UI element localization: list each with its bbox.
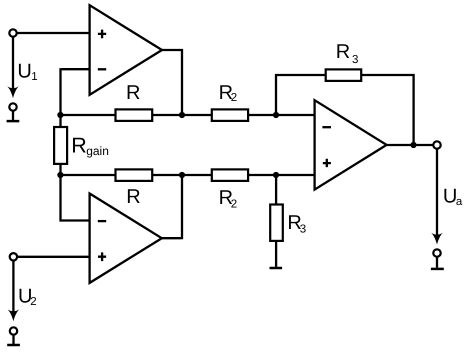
wire row1 right [248,114,315,116]
resistor R2 (top) [212,109,248,121]
svg-text:U: U [17,60,31,82]
op-amp A3 (right) [315,100,387,189]
node G (output junction) [410,142,416,148]
svg-text:3: 3 [352,54,358,66]
label R3 (top) [336,41,359,66]
svg-text:gain: gain [86,144,109,158]
wire Rgain to row2 [59,164,61,175]
terminal U2 input [10,253,17,260]
U2 source arrow [8,261,20,322]
svg-text:R: R [126,82,140,104]
terminal U2 reference [7,327,20,345]
wire op-amp1 inverting input [61,68,90,127]
op-amp A2 (bottom) [90,194,162,283]
label R2 (bottom) [219,187,238,211]
label R2 (top) [219,82,238,104]
node C (row1 feedback junction) [273,112,279,118]
wire row2 right [248,174,315,176]
label R3 (vertical) [287,212,306,236]
svg-text:R: R [126,186,140,208]
wire row1 left [60,114,115,116]
label U1 [17,60,37,83]
node A (row1 left junction) [57,112,63,118]
svg-text:2: 2 [231,199,237,211]
label Rgain [71,133,109,158]
label U2 [18,285,37,308]
terminal U1 reference [7,103,20,121]
svg-text:a: a [456,196,463,208]
wire R3 vertical top stem [275,176,277,204]
label Ua [443,185,463,208]
resistor R2 (bottom) [212,169,248,181]
svg-text:2: 2 [30,296,36,308]
resistor Rgain [54,127,67,164]
svg-text:3: 3 [300,224,306,236]
wire R3 vertical bottom stem [275,241,277,267]
wire U1 plus input [17,32,89,34]
wire feedback right (R3 to output) [361,74,413,145]
node D (row2 left junction) [57,172,63,178]
ground [270,267,283,270]
svg-text:1: 1 [31,71,37,83]
Ua arrow [431,149,443,245]
wire U2 plus input [17,256,90,258]
wire row2 left [60,174,115,176]
svg-text:2: 2 [231,92,237,104]
wire op-amp3 output [387,144,434,146]
op-amp A1 (top) [90,5,162,95]
wire row2 middle [152,174,212,176]
svg-text:R: R [71,133,87,157]
node F (row2 R3 junction) [273,172,279,178]
terminal Ua reference [431,249,444,269]
resistor R3 (top feedback) [326,69,362,81]
resistor R3 (vertical) [270,205,283,241]
node E (row2 op-amp2 output junction) [179,172,185,178]
wire op-amp2 output [162,175,182,239]
node B (row1 op-amp1 output junction) [179,112,185,118]
resistor R (top) [116,109,153,121]
terminal U1 input [9,29,16,36]
svg-text:R: R [336,41,350,63]
wire row1 middle [152,114,212,116]
U1 source arrow [7,37,19,98]
label R (top) [126,82,140,104]
label R (bottom) [126,186,140,208]
terminal Ua output [433,141,440,148]
wire op-amp1 output [162,49,182,115]
resistor R (bottom) [116,169,153,181]
wire feedback left (row1 to R3) [275,75,326,116]
wire op-amp2 inverting input [59,174,89,221]
